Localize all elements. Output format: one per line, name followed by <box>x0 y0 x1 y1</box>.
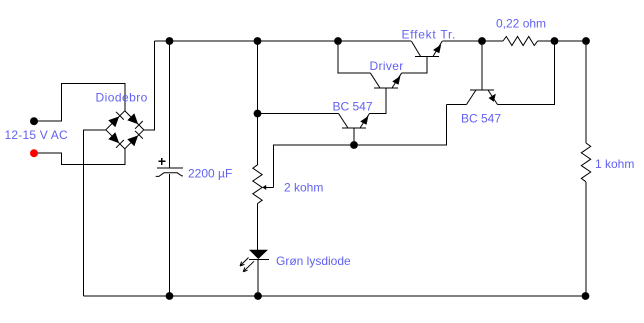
svg-text:Effekt Tr.: Effekt Tr. <box>402 28 457 42</box>
svg-text:2200 µF: 2200 µF <box>188 167 232 181</box>
svg-text:12-15 V AC: 12-15 V AC <box>5 128 69 142</box>
svg-text:2 kohm: 2 kohm <box>284 181 323 195</box>
svg-text:1 kohm: 1 kohm <box>595 157 634 171</box>
svg-text:Grøn lysdiode: Grøn lysdiode <box>276 254 351 268</box>
svg-text:BC 547: BC 547 <box>333 100 373 114</box>
svg-text:0,22 ohm: 0,22 ohm <box>496 17 546 31</box>
svg-text:Driver: Driver <box>370 59 404 73</box>
svg-text:BC 547: BC 547 <box>461 112 501 126</box>
svg-text:Diodebro: Diodebro <box>96 91 148 105</box>
